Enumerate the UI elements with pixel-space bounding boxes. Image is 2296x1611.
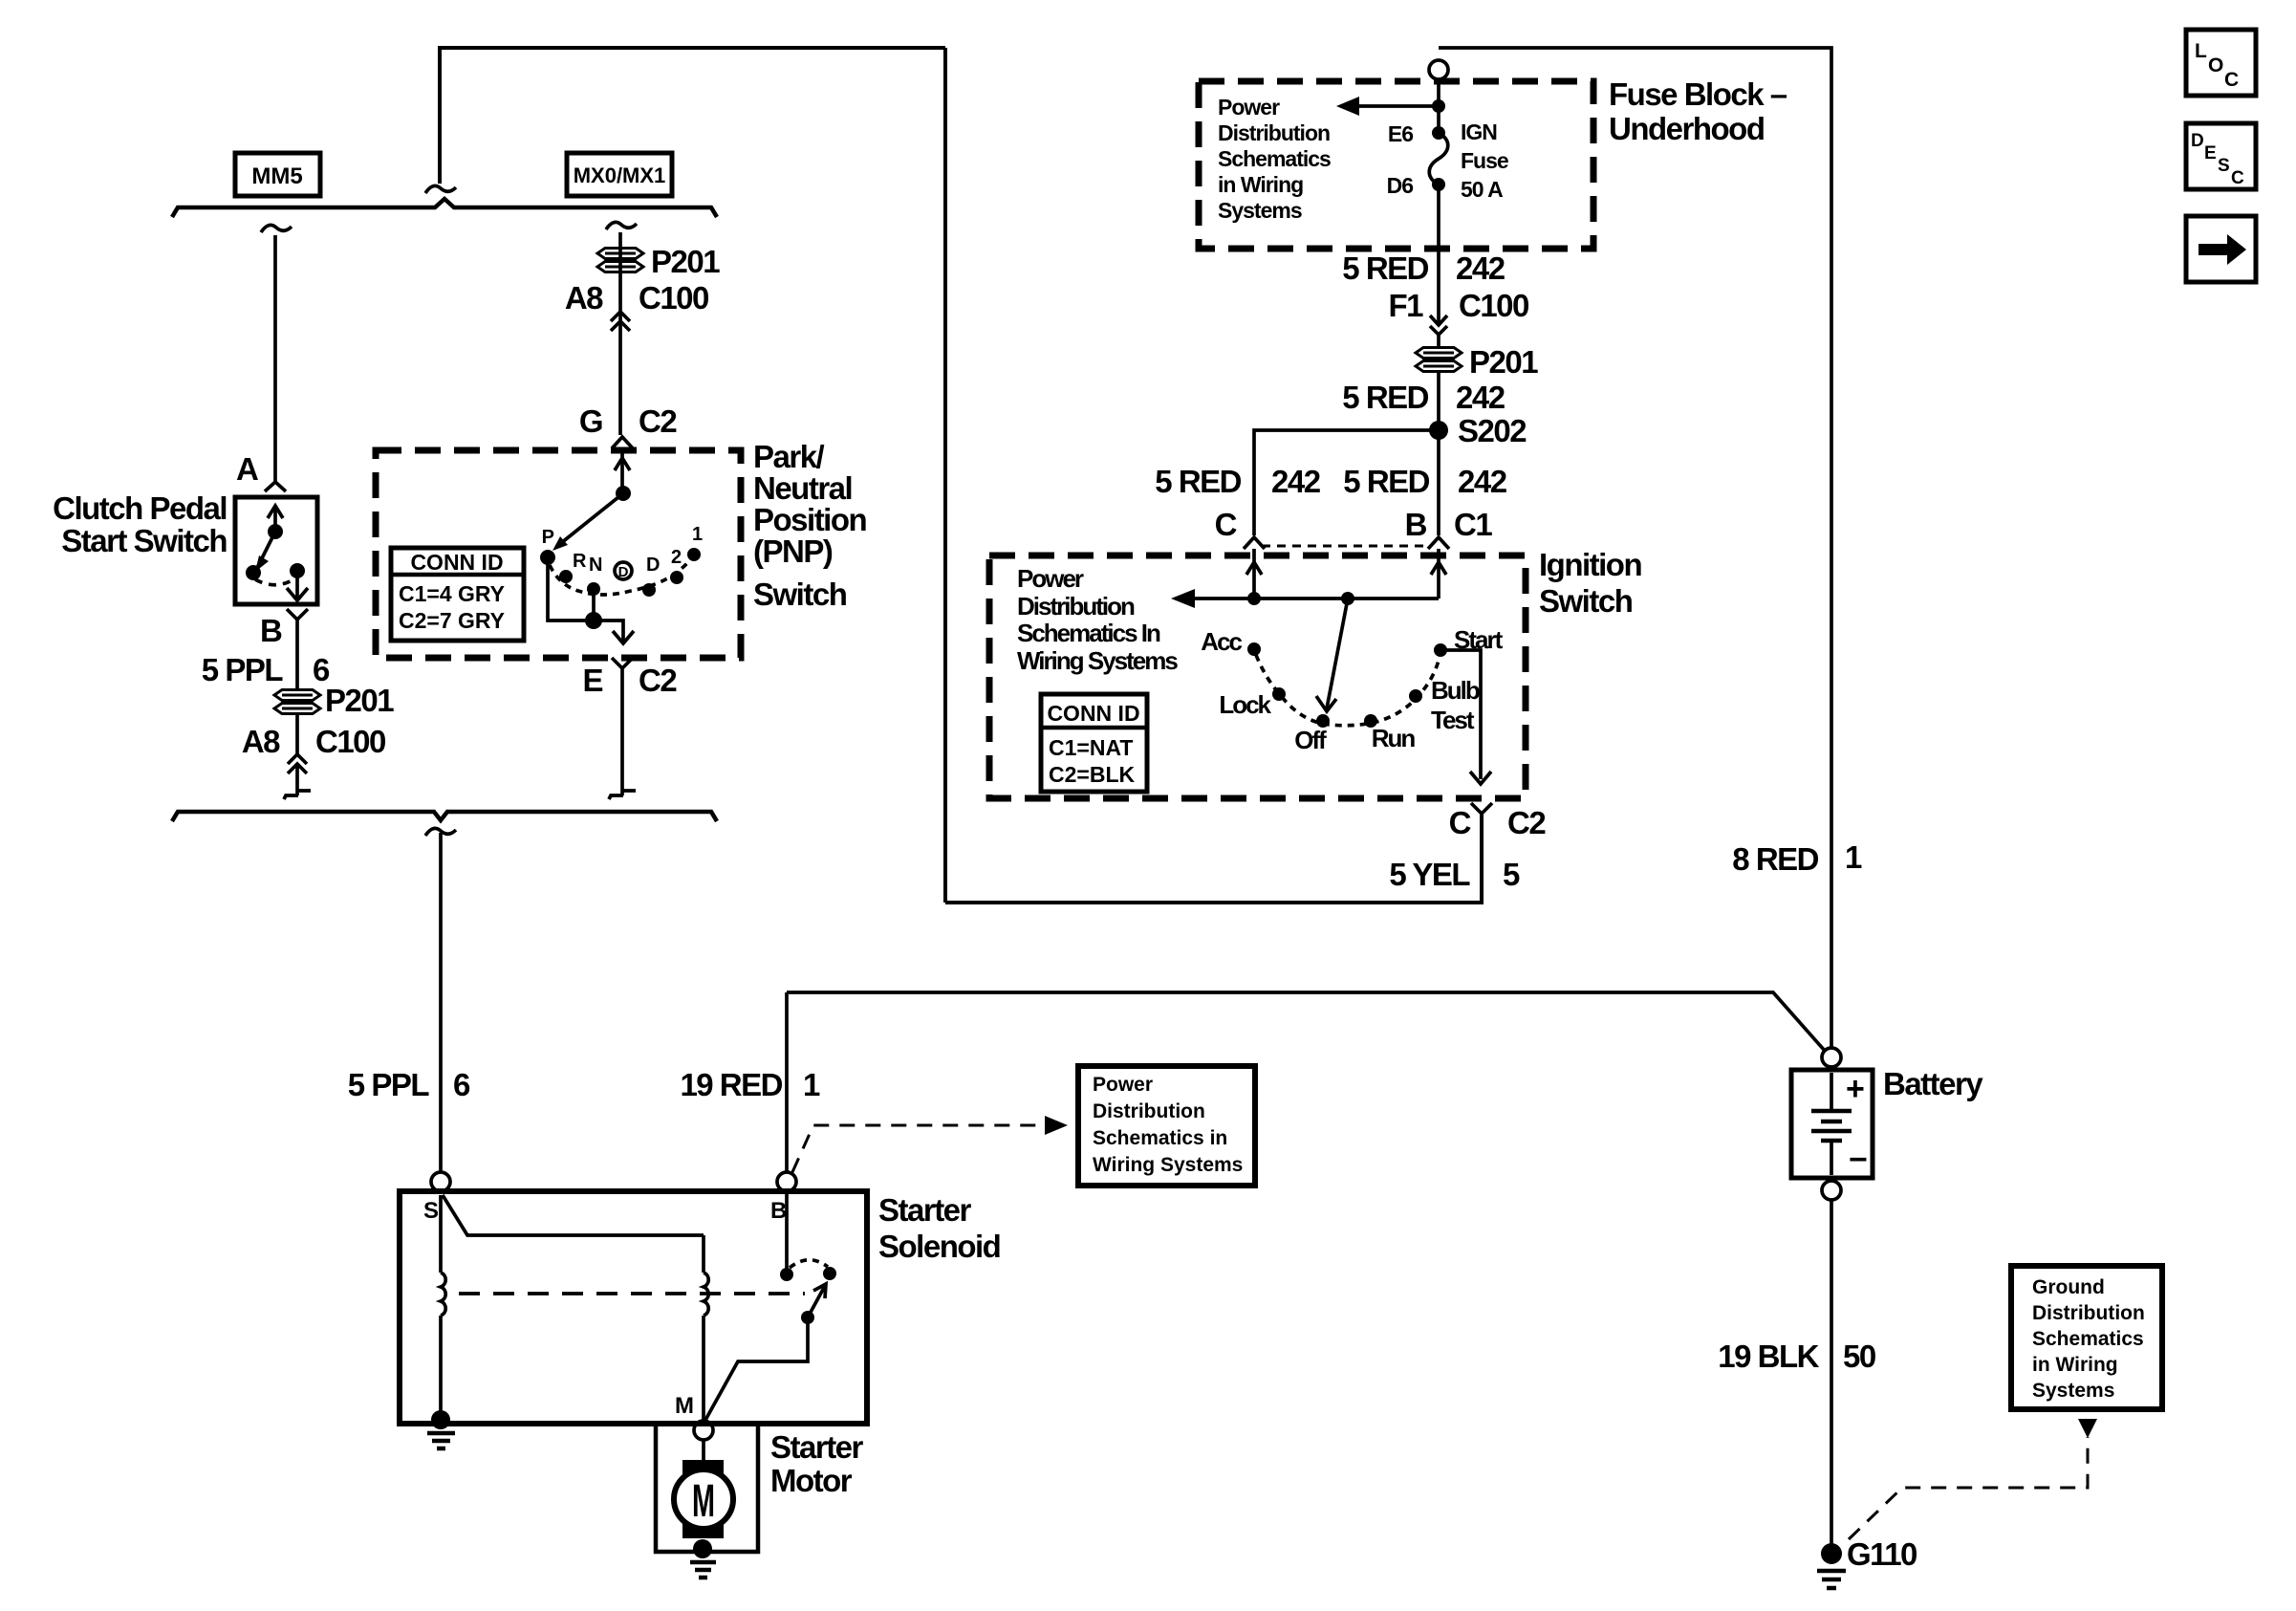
ground distribution reference box <box>2011 1266 2162 1409</box>
svg-text:5 RED: 5 RED <box>1343 464 1429 499</box>
wire P201 to S202 <box>1437 371 1440 430</box>
wire S202 left branch <box>1254 430 1439 535</box>
svg-text:5: 5 <box>1503 857 1520 892</box>
svg-text:N: N <box>589 555 602 576</box>
svg-text:Starter: Starter <box>878 1192 972 1228</box>
terminal M <box>694 1421 713 1440</box>
svg-text:Schematics in: Schematics in <box>1093 1127 1227 1149</box>
svg-text:Test: Test <box>1431 706 1475 734</box>
svg-text:Starter: Starter <box>770 1429 864 1465</box>
svg-text:Schematics In: Schematics In <box>1017 619 1160 647</box>
svg-text:C: C <box>2231 168 2244 188</box>
svg-text:Distribution: Distribution <box>1218 120 1330 145</box>
svg-text:CONN ID: CONN ID <box>410 550 503 575</box>
wire B to contact <box>785 1191 789 1274</box>
dashed reference path G110 to ground box <box>1849 1419 2097 1539</box>
svg-text:242: 242 <box>1458 464 1507 499</box>
pin chevron A <box>265 482 286 491</box>
svg-text:C1: C1 <box>1454 507 1492 542</box>
svg-text:5 PPL: 5 PPL <box>348 1067 430 1102</box>
dashed actuation link <box>459 1292 805 1295</box>
wire top-left feedback run <box>440 48 945 184</box>
svg-text:5 RED: 5 RED <box>1155 464 1241 499</box>
svg-text:A8: A8 <box>242 724 280 759</box>
svg-text:D: D <box>646 555 660 576</box>
pnp dashed gate arc <box>550 556 692 595</box>
svg-text:C2: C2 <box>639 403 677 439</box>
ground G110 <box>1817 1536 1917 1588</box>
connector C100 arrow and chevron <box>1430 316 1447 347</box>
svg-text:Power: Power <box>1017 564 1084 593</box>
wire coil to ground <box>439 1316 443 1415</box>
wire A branch squiggle <box>261 225 292 232</box>
svg-text:−: − <box>1849 1142 1868 1178</box>
clutch switch dashed travel arc <box>255 578 295 585</box>
svg-text:Clutch Pedal: Clutch Pedal <box>53 490 227 526</box>
pin E6 <box>1432 126 1445 140</box>
svg-text:Power: Power <box>1093 1074 1153 1096</box>
connector C100 double chevron (MX0 wire) <box>611 312 630 331</box>
pin D6 <box>1432 178 1445 191</box>
svg-text:S: S <box>2218 156 2230 176</box>
pin chevron B C1 <box>1428 537 1449 549</box>
svg-text:Switch: Switch <box>1539 583 1633 619</box>
svg-text:S: S <box>423 1198 439 1224</box>
connector P201 grommet (clutch wire) <box>274 683 394 718</box>
wire A from bus to clutch switch <box>273 235 277 481</box>
svg-text:Wiring Systems: Wiring Systems <box>1093 1154 1243 1176</box>
terminal B <box>777 1172 796 1191</box>
svg-text:Neutral: Neutral <box>753 470 852 506</box>
forward arrow icon box <box>2186 216 2256 282</box>
svg-text:Position: Position <box>753 502 867 537</box>
svg-text:242: 242 <box>1456 380 1505 415</box>
svg-text:MX0/MX1: MX0/MX1 <box>574 163 666 187</box>
svg-text:S202: S202 <box>1458 413 1527 448</box>
svg-text:50 A: 50 A <box>1461 177 1503 202</box>
contact 1 <box>687 548 701 561</box>
svg-text:C: C <box>1449 805 1471 840</box>
wire S internal diagonal and top run <box>443 1195 704 1235</box>
svg-text:Wiring Systems: Wiring Systems <box>1017 646 1178 675</box>
wire battery to G110 <box>1830 1200 1833 1547</box>
svg-text:Ground: Ground <box>2032 1276 2105 1298</box>
svg-text:in Wiring: in Wiring <box>1218 172 1303 197</box>
clutch switch output down arrow <box>287 571 308 600</box>
svg-text:C100: C100 <box>639 280 708 316</box>
svg-text:C: C <box>1215 507 1237 542</box>
connector P201 grommet (MX0 wire) <box>597 244 720 279</box>
wire ignition feedback left vertical <box>943 48 947 903</box>
svg-text:242: 242 <box>1271 464 1321 499</box>
svg-text:Acc: Acc <box>1201 627 1242 656</box>
wire E to lower bus <box>620 668 624 795</box>
svg-text:Park/: Park/ <box>753 439 825 474</box>
wire stem below chevron <box>295 764 299 795</box>
svg-text:O: O <box>2208 54 2223 76</box>
svg-text:5 RED: 5 RED <box>1342 250 1428 286</box>
starter solenoid box <box>400 1191 867 1424</box>
starter motor M symbol <box>674 1460 733 1538</box>
wire end curl above lower bus <box>284 791 311 799</box>
svg-text:Lock: Lock <box>1219 690 1271 719</box>
svg-text:Underhood: Underhood <box>1609 111 1764 146</box>
park/neutral position switch dashed box <box>376 450 741 658</box>
svg-text:Battery: Battery <box>1883 1066 1983 1101</box>
svg-text:Off: Off <box>1294 726 1327 754</box>
terminal S <box>431 1172 450 1191</box>
contact P <box>540 550 555 565</box>
svg-text:Schematics: Schematics <box>1218 146 1331 171</box>
solenoid contact right <box>823 1267 836 1280</box>
connector C1 dashed body line <box>1262 545 1431 548</box>
svg-text:P201: P201 <box>1469 344 1538 380</box>
svg-text:1: 1 <box>1845 839 1862 875</box>
svg-text:P201: P201 <box>325 683 394 718</box>
svg-text:19 RED: 19 RED <box>680 1067 782 1102</box>
svg-text:Systems: Systems <box>2032 1380 2114 1402</box>
wire from terminal into fuse block <box>1437 79 1440 133</box>
LOC icon box <box>2186 30 2256 96</box>
wire lower bus <box>172 812 717 821</box>
contact N <box>587 582 600 596</box>
ignition internal feed arrow left <box>1171 589 1439 608</box>
wire moving contact to M <box>704 1317 808 1422</box>
contact Bulb Test <box>1409 689 1422 703</box>
svg-text:MM5: MM5 <box>251 163 302 189</box>
clutch switch contact arm up arrow <box>255 506 283 572</box>
svg-text:IGN: IGN <box>1461 120 1497 144</box>
wire MX0 branch to P201 <box>618 232 622 435</box>
svg-text:6: 6 <box>453 1067 470 1102</box>
wire M to motor <box>702 1440 705 1463</box>
ignition dashed detent arc <box>1256 655 1440 726</box>
pin chevron C <box>1244 537 1265 549</box>
pnp selector arm arrow to P <box>552 493 623 551</box>
contact Lock <box>1272 687 1286 701</box>
text Power Distribution Schematics In Wiring Systems (ignition) <box>1017 564 1178 675</box>
wire S202 right branch <box>1437 430 1440 535</box>
pnp entry arrow <box>615 448 630 491</box>
pnp output down arrow <box>613 620 634 643</box>
contact D circled indicator <box>615 562 632 580</box>
wire P201 to C100 chevron <box>295 713 299 755</box>
wire N contact stub <box>592 589 596 620</box>
contact Acc <box>1247 642 1261 656</box>
svg-text:5 YEL: 5 YEL <box>1389 857 1470 892</box>
svg-text:Distribution: Distribution <box>2032 1302 2145 1324</box>
svg-text:D: D <box>618 564 629 580</box>
CONN ID table (pnp) <box>391 548 524 641</box>
svg-text:D6: D6 <box>1387 173 1414 198</box>
svg-text:A: A <box>236 451 258 487</box>
svg-text:C100: C100 <box>1459 288 1528 323</box>
svg-text:M: M <box>675 1393 694 1419</box>
svg-text:C: C <box>2224 69 2239 91</box>
svg-text:M: M <box>692 1476 715 1527</box>
wire B to P201 <box>295 620 299 690</box>
power distribution reference box <box>1078 1066 1255 1186</box>
wire ignition feedback bottom run <box>945 814 1482 903</box>
text Power Distribution Schematics in Wiring Systems (fuse block) <box>1218 95 1331 223</box>
contact Off <box>1316 714 1330 728</box>
svg-text:Power: Power <box>1218 95 1280 120</box>
ignition rotor arrow to Off <box>1316 599 1348 711</box>
svg-text:G110: G110 <box>1847 1536 1917 1572</box>
connector P201 grommet (fuse wire) <box>1416 344 1538 380</box>
wire P contact to output <box>548 557 617 620</box>
svg-text:Switch: Switch <box>753 577 847 612</box>
battery box <box>1791 1070 1873 1178</box>
svg-text:5 RED: 5 RED <box>1342 380 1428 415</box>
solenoid hold-in coil <box>704 1235 708 1424</box>
svg-text:E: E <box>582 663 602 698</box>
svg-text:P201: P201 <box>651 244 720 279</box>
wire 19 RED to B terminal <box>785 992 789 1172</box>
battery cell plates <box>1811 1073 1852 1175</box>
svg-text:Solenoid: Solenoid <box>878 1229 1000 1264</box>
dashed reference arrow B to power box <box>792 1116 1068 1172</box>
wire end curl above lower bus (E wire) <box>609 791 636 799</box>
wire Start to C2 output <box>1440 650 1481 779</box>
svg-text:Run: Run <box>1372 724 1416 752</box>
svg-text:Bulb: Bulb <box>1431 676 1480 705</box>
svg-text:L: L <box>2195 40 2207 62</box>
contact Start <box>1434 643 1447 657</box>
pin chevron B <box>287 609 308 620</box>
svg-text:C2: C2 <box>639 663 677 698</box>
dashed contact arc <box>790 1260 828 1268</box>
node MX0/MX1 label box <box>567 153 672 196</box>
clutch pedal start switch box <box>235 497 317 604</box>
svg-text:1: 1 <box>692 524 703 545</box>
node MM5 label box <box>235 153 320 196</box>
contact R <box>559 570 573 583</box>
fuse block underhood dashed box <box>1199 81 1593 249</box>
starter motor box <box>656 1424 758 1552</box>
svg-text:C2=7 GRY: C2=7 GRY <box>399 608 505 633</box>
svg-text:C1=4 GRY: C1=4 GRY <box>399 581 505 606</box>
fuse IGN 50 A element <box>1429 133 1448 185</box>
pnp pivot contact <box>616 486 631 501</box>
pin chevron E C2 <box>612 658 633 668</box>
ignition entry arrow B <box>1431 549 1446 599</box>
svg-text:Distribution: Distribution <box>1093 1100 1205 1122</box>
wire top-right battery feed <box>1439 48 1831 1048</box>
svg-text:E: E <box>2204 143 2217 163</box>
svg-text:242: 242 <box>1456 250 1505 286</box>
wire upper bus break squiggle <box>425 185 456 193</box>
wire 19 RED feed run <box>787 992 1825 1051</box>
ignition entry arrow C <box>1246 549 1262 599</box>
contact D <box>642 583 656 597</box>
svg-text:C100: C100 <box>315 724 385 759</box>
wire S coil lead <box>439 1195 443 1273</box>
svg-text:D: D <box>2191 131 2204 151</box>
svg-text:in Wiring: in Wiring <box>2032 1354 2118 1376</box>
svg-text:8 RED: 8 RED <box>1732 841 1818 877</box>
svg-text:(PNP): (PNP) <box>753 533 833 569</box>
ignition output down arrow <box>1470 772 1491 784</box>
svg-text:CONN ID: CONN ID <box>1047 701 1139 726</box>
battery positive terminal <box>1822 1048 1841 1067</box>
junction at pnp output <box>585 612 602 629</box>
contact Run <box>1364 714 1377 728</box>
contact 2 <box>670 571 683 584</box>
svg-text:5 PPL: 5 PPL <box>202 652 284 687</box>
DESC icon box <box>2186 123 2256 189</box>
solenoid pull-in coil <box>441 1273 445 1316</box>
clutch switch fixed contact right <box>290 563 305 578</box>
svg-text:P: P <box>542 527 554 548</box>
ignition switch dashed box <box>989 555 1526 798</box>
svg-text:C2: C2 <box>1507 805 1546 840</box>
solenoid contact left <box>780 1268 793 1281</box>
solenoid moving contact arm arrow <box>801 1284 826 1324</box>
wire lower bus break squiggle <box>425 828 456 836</box>
svg-text:Distribution: Distribution <box>1017 592 1135 620</box>
svg-text:Start Switch: Start Switch <box>61 523 227 558</box>
svg-text:Fuse Block –: Fuse Block – <box>1609 76 1787 112</box>
CONN ID table (ignition) <box>1041 694 1147 792</box>
svg-text:Motor: Motor <box>770 1463 853 1498</box>
pin chevron C C2 <box>1471 803 1492 814</box>
svg-text:Schematics: Schematics <box>2032 1328 2144 1350</box>
connector C100 double chevron (clutch wire) <box>288 754 307 773</box>
pin chevron G C2 <box>612 437 633 448</box>
wire fuse output down to P201 <box>1437 185 1440 325</box>
svg-text:Systems: Systems <box>1218 198 1302 223</box>
svg-text:50: 50 <box>1843 1339 1875 1374</box>
wire upper bus <box>172 199 717 217</box>
svg-text:G: G <box>579 403 602 439</box>
svg-text:E6: E6 <box>1388 121 1413 146</box>
svg-text:F1: F1 <box>1388 288 1423 323</box>
svg-text:2: 2 <box>671 547 682 568</box>
svg-text:B: B <box>770 1198 787 1224</box>
svg-text:R: R <box>573 551 587 572</box>
svg-text:C1=NAT: C1=NAT <box>1049 735 1133 760</box>
svg-text:Fuse: Fuse <box>1461 148 1508 173</box>
power distribution ref arrow (fuse block) <box>1336 97 1445 116</box>
svg-text:C2=BLK: C2=BLK <box>1049 762 1135 787</box>
svg-text:+: + <box>1846 1071 1865 1107</box>
svg-text:B: B <box>260 613 282 648</box>
wire bus to starter solenoid S <box>439 833 443 1172</box>
terminal circle at fuse block top <box>1429 60 1448 79</box>
ground (solenoid coil) <box>427 1410 455 1448</box>
label Park/Neutral Position (PNP) Switch <box>753 439 867 612</box>
wire MX0 branch squiggle <box>606 222 637 229</box>
splice S202 <box>1429 421 1448 440</box>
clutch switch fixed contact left <box>246 565 261 580</box>
svg-text:19 BLK: 19 BLK <box>1718 1339 1819 1374</box>
svg-text:B: B <box>1405 507 1427 542</box>
svg-text:Ignition: Ignition <box>1539 547 1641 582</box>
ground (starter motor) <box>690 1539 716 1578</box>
battery negative terminal <box>1822 1181 1841 1200</box>
svg-text:1: 1 <box>803 1067 820 1102</box>
svg-text:A8: A8 <box>565 280 603 316</box>
